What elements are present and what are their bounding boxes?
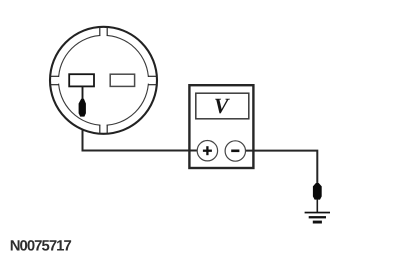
- key notch left: [50, 76, 64, 84]
- svg-text:N0075717: N0075717: [10, 238, 72, 254]
- wire from probe to voltmeter positive terminal: [83, 116, 208, 151]
- negative terminal: [225, 141, 245, 161]
- wire from negative terminal to ground drop: [235, 151, 317, 184]
- ground symbol: [305, 212, 330, 224]
- svg-text:V: V: [214, 94, 231, 118]
- positive terminal: [197, 141, 217, 161]
- probe tip on ground lead: [313, 183, 322, 200]
- pin 1 (left, probed): [69, 74, 94, 86]
- pin 2 (right): [110, 74, 134, 86]
- connector C1 outer circle: [50, 27, 157, 134]
- connector C1 inner circle: [59, 35, 149, 125]
- key notch bottom: [100, 122, 107, 134]
- key notch right: [143, 76, 157, 84]
- probe lead from pin 1: [82, 86, 84, 100]
- key notch top: [100, 27, 107, 39]
- ground lead wire: [316, 199, 318, 212]
- voltmeter display screen: [196, 93, 249, 119]
- probe tip at pin 1: [79, 99, 86, 117]
- voltmeter body: [189, 85, 253, 168]
